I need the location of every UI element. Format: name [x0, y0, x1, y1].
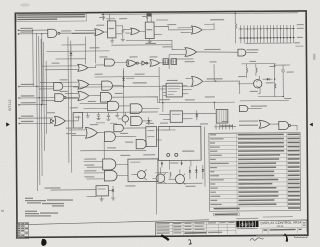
resistor R40 vertical [246, 64, 247, 78]
wire x104 drop [103, 142, 105, 159]
label C67 [287, 72, 294, 73]
resistor R21 pullup [103, 16, 148, 20]
wire rail drops [103, 13, 235, 24]
input port BS1 D02 [18, 102, 46, 106]
diode D16 vertical [202, 165, 205, 179]
and-gate E21 top row [104, 59, 114, 66]
one-shot box E43 [146, 127, 157, 147]
parts table bottom row instrument technician [214, 207, 300, 209]
label right margin small [313, 54, 316, 60]
wire E18 output [65, 116, 78, 121]
label above FF1 [106, 18, 115, 19]
inverter bubble E51 [289, 124, 291, 126]
xor-gate E22 top row [126, 60, 136, 67]
wire crossband c [55, 58, 85, 60]
diode D14 vertical [189, 166, 192, 179]
and-gate E51 [279, 121, 289, 129]
diode D12 under P1 [161, 163, 164, 165]
or-gate E18 [54, 116, 65, 126]
wire vertical pair A [67, 37, 70, 163]
wire E35 output [248, 108, 262, 110]
label above op-amp [167, 80, 178, 81]
comb small above table [214, 124, 236, 130]
wire FF2 output to E8 [154, 26, 192, 34]
wire emitter down [258, 77, 284, 96]
label in P1 top [162, 129, 176, 130]
wire E21 output [115, 61, 128, 63]
node A1 branches [32, 30, 42, 35]
and-gate E42 upper [114, 124, 124, 131]
wire E41 output [115, 135, 136, 137]
buffer E35 oval [239, 106, 248, 112]
contact block K1 [163, 59, 169, 65]
wire left vertical bus line 1 [36, 33, 37, 191]
scattered signal labels [46, 17, 276, 188]
small circle in P1 b [175, 153, 178, 156]
wire E45 output [116, 163, 128, 165]
wire long y86.5 [78, 85, 192, 87]
flip-flop E3 [145, 22, 154, 39]
wire vertical x275 analog [274, 65, 276, 97]
bottom-center handwriting mark [188, 240, 192, 244]
label row under cluster 2 [110, 123, 117, 124]
delay-line box DL1 [216, 109, 228, 123]
label +5V left [99, 17, 105, 18]
wire E9 input run [126, 40, 172, 50]
wire E42 output [123, 127, 145, 129]
label x reg [133, 82, 147, 83]
wire E44 output [145, 143, 147, 145]
label delay under DL1 [220, 125, 233, 126]
label gnd analog [284, 98, 291, 99]
one-shot box E34 [170, 111, 182, 122]
diode D13 under P1 [180, 163, 183, 165]
DAC ladder junction dots [240, 28, 294, 39]
input port BS1 D01 [18, 95, 54, 99]
box E19 region [73, 113, 83, 129]
wire long y102.7 [158, 101, 235, 104]
DAC ladder vertical rungs [241, 25, 294, 43]
input port IOT 2 [19, 121, 54, 125]
capacitor Cb [106, 112, 110, 120]
wire left vertical bus line 5 [45, 61, 48, 134]
wire E16 output [66, 96, 78, 98]
wire inputs of E1b [123, 30, 131, 33]
transistor Q9 [152, 167, 165, 183]
title block signatures column [155, 221, 235, 235]
label gnd right margin [295, 46, 303, 47]
top-left smudge [20, 3, 30, 6]
or-gate E1a [95, 29, 104, 36]
wire E31 output [142, 120, 152, 122]
wire E24 output to right [160, 62, 168, 64]
transistor Q2 [238, 76, 262, 94]
wire left vertical bus line 3 [41, 39, 42, 176]
label +bal [238, 76, 246, 77]
title text display control vr14 [260, 220, 301, 228]
wire E34 to DL1 [183, 114, 217, 119]
wire y97.5 analog [258, 96, 284, 98]
label line sync [204, 49, 220, 50]
wire E40 inputs [69, 130, 86, 136]
node rail junctions [102, 12, 235, 16]
right margin arrow mark [309, 123, 312, 127]
capacitor Ca [96, 112, 100, 119]
resistor R42 on x275 [275, 84, 276, 89]
label under E9 [175, 58, 193, 59]
label chart header above title [263, 216, 293, 217]
contact block K2 [171, 59, 177, 65]
label FF2 [146, 29, 152, 30]
wire E46 output [117, 175, 128, 177]
label +5V clamp [210, 19, 224, 20]
wire +15 top rail analog [242, 63, 276, 65]
label last x/y [204, 24, 214, 25]
inverter bubble E22 [136, 62, 138, 64]
ground below FF2 [148, 39, 152, 44]
or-gate E1b [131, 28, 140, 34]
label -15V ladder right [294, 42, 300, 43]
wire E9 output [197, 51, 238, 54]
diode D15 vertical [195, 166, 198, 179]
wire E1a to E2 [104, 31, 108, 33]
and-gate E46 [104, 171, 117, 181]
diode D10 on wire [263, 78, 273, 81]
wire E20 inputs [42, 66, 78, 70]
diode D7 vertical [122, 70, 125, 86]
node junction y86.5 [123, 86, 124, 87]
title block middle grid [184, 221, 236, 235]
wire E9 lower input run [168, 55, 170, 69]
label +5 -15 in P1 [182, 151, 194, 152]
wire E26 output [113, 84, 124, 86]
drawing number under block [256, 235, 283, 236]
label +5 above comb [222, 121, 228, 122]
wire E43 outputs right [157, 127, 170, 140]
input port BMB09 [18, 28, 48, 32]
and-gate E41 [104, 132, 115, 142]
wire y101.5 long analog [240, 99, 289, 101]
bottom right scale ticks [295, 235, 308, 238]
or-gate E9 [185, 48, 197, 57]
transistor Q10 [168, 170, 185, 185]
flip-flop E2 [107, 21, 116, 38]
transistor Q7 small [118, 112, 129, 125]
label D-ERS under FF2 [145, 43, 156, 44]
wire under FF row [111, 44, 171, 46]
label gnd trig [246, 49, 258, 50]
label +15 analog [250, 61, 257, 62]
wire y183 lower link [156, 182, 202, 184]
label in K3 [98, 188, 106, 189]
wire E25 inputs [40, 82, 78, 87]
wire E50 to E51 [270, 123, 279, 125]
small circle in P1 [167, 153, 170, 156]
note text block top-left [16, 13, 86, 22]
wire E16 second input [42, 99, 55, 101]
parts table frame [209, 133, 301, 212]
wire E29 output [119, 105, 130, 107]
and-gate E26 [102, 81, 113, 90]
label ladder mid row [297, 37, 303, 38]
and-gate E16 [55, 94, 64, 102]
wire E10 output [246, 51, 257, 53]
wire E1b to E3 [140, 30, 146, 32]
title block outline [155, 220, 307, 235]
label row under cluster [96, 122, 105, 123]
wire vertical x214.5 [213, 64, 215, 81]
wire long y76.5 [95, 76, 160, 79]
revision table bottom-left [16, 223, 29, 239]
wire E20 output [88, 65, 105, 68]
wire E25 to E26 [89, 83, 102, 85]
label x mon [251, 105, 267, 106]
wire top rail [101, 13, 298, 15]
or-gate E20 top-left [78, 64, 88, 71]
or-gate E33 big [192, 76, 203, 86]
inverter bubble E16 out [64, 97, 66, 99]
wire op-amp pins left [159, 85, 166, 95]
wire FF1 drop [85, 33, 95, 64]
diode D9 vertical [196, 110, 199, 120]
transistor Q8 inside P2 [131, 170, 147, 181]
wire E8 inputs [178, 28, 192, 33]
and-gate E44 [136, 139, 146, 148]
title block [155, 212, 307, 236]
wire inputs of E1a from bus [72, 30, 95, 33]
or-gate E8 [192, 26, 203, 34]
diode D11 [112, 186, 115, 196]
wire E28 output long [112, 97, 158, 103]
wire E8 output [202, 23, 214, 30]
diode D8 [147, 117, 150, 125]
wire E27 to E28 [89, 95, 101, 97]
label (+5V) ladder right [297, 28, 304, 29]
wire x156 drop [155, 182, 157, 215]
wire y196 link [87, 191, 114, 197]
or-gate E50 [259, 120, 270, 128]
ground under D11 [111, 195, 115, 200]
wire E46 inputs [84, 173, 105, 179]
label +15V mid [210, 61, 217, 62]
title block next assy header [213, 213, 239, 216]
wire E33 inputs [186, 79, 192, 84]
input port IOT 1 [19, 115, 53, 119]
wire E27 inputs [65, 93, 78, 98]
or-gate E24 [150, 60, 159, 67]
or-gate E27 [78, 91, 89, 100]
label x sum [207, 78, 223, 79]
and-gate E29 [108, 101, 119, 110]
wire E15 second input [39, 88, 54, 90]
bottom-right ink crescent [284, 234, 288, 242]
resistor R44 vertical [170, 172, 171, 179]
wire drops under P1 [162, 160, 191, 169]
wire vertical x159.5 [158, 67, 160, 103]
amp box P2 [128, 159, 158, 182]
wire crossband b [46, 50, 109, 52]
wire E29 inputs [80, 103, 108, 108]
bottom-center ink stroke [160, 234, 169, 241]
parts table description column [238, 134, 285, 206]
diode D2 on drop [69, 45, 72, 67]
label in P2 [130, 162, 140, 163]
wire y173 link [155, 172, 168, 174]
signature squiggle [250, 238, 264, 241]
label inside E34 [172, 114, 181, 115]
node analog junctions [274, 64, 284, 97]
wire crossband a [61, 44, 85, 46]
ground under K3 [100, 196, 104, 201]
wire E30 output [142, 108, 159, 110]
wire into E34 left [159, 114, 170, 119]
parts table left column labels [210, 134, 229, 205]
label +5V right [142, 16, 148, 17]
power box P1 [158, 126, 201, 160]
wire E45 inputs [84, 161, 103, 167]
capacitor C67 [281, 65, 285, 77]
inverter E23 [142, 61, 148, 65]
wire A1 output to E1a [60, 32, 95, 34]
wire vertical pair B [71, 41, 72, 173]
wire E51 output [291, 125, 297, 130]
label above FF2 [156, 19, 168, 20]
and-gate E30 [130, 104, 142, 114]
wire left vertical bus line 2 [39, 36, 40, 185]
label inside E43 b [147, 136, 154, 137]
or-gate E40 [86, 127, 98, 138]
label FF1 [109, 28, 115, 29]
and-gate E31 [131, 116, 142, 125]
wire E33 output right [203, 81, 240, 94]
resistor R41 vertical [256, 64, 257, 76]
left margin small smudge [1, 210, 4, 212]
label sig b above table [239, 125, 258, 126]
notes text block [25, 198, 73, 217]
wire vertical x163 [162, 87, 164, 112]
wire long y112 [78, 111, 158, 114]
wire blue/white long [51, 189, 97, 191]
label sig a above table [239, 120, 258, 121]
digital logo [236, 218, 258, 229]
label inside E19 [74, 117, 80, 118]
bottom-left ink blob [41, 239, 46, 246]
and-gate E45 [103, 159, 116, 170]
and-gate E10 [238, 49, 246, 56]
node y102.7 junctions [162, 102, 215, 104]
left margin arrow mark [6, 122, 10, 126]
wire analog top link [275, 64, 290, 66]
resistor R30 [235, 23, 237, 43]
wire E22 to E23 [138, 62, 141, 64]
label inside E43 [147, 130, 154, 131]
ground below FF1 [110, 38, 114, 43]
ground below C12 [121, 38, 125, 42]
op-amp A702 box [166, 83, 182, 97]
wire x204.5 drop [204, 127, 206, 187]
parts table part-number column [287, 134, 300, 205]
label blue/white [45, 187, 61, 188]
and-gate E28 [100, 92, 111, 102]
wire y150 long [80, 149, 146, 152]
relay box K3 [96, 186, 108, 196]
wire x214.5 lower [213, 102, 215, 109]
wire E15 output [63, 85, 78, 87]
ground sym b [115, 112, 119, 118]
nand-gate A1 [48, 29, 60, 37]
input port BMB10 [18, 31, 48, 35]
and-gate E15 [54, 82, 63, 90]
capacitor C12 between stages [122, 26, 125, 38]
wire vertical x123.9 long [122, 68, 124, 116]
inverter E17 [51, 119, 54, 123]
title number row [259, 220, 307, 234]
wire E23 to E24 [148, 62, 150, 64]
paper noise overlay [0, 0, 1, 1]
DAC ladder horizontal buses [239, 29, 295, 44]
wire E40 to E41 [97, 132, 104, 134]
wire op-amp pins right [182, 86, 191, 94]
wire FF1 output [116, 26, 123, 34]
wire E9 inputs [169, 50, 185, 55]
label near D7 [126, 78, 134, 79]
input port BS1 D00 [18, 84, 53, 88]
node x216 [215, 80, 216, 81]
wire left vertical bus line 4 [43, 42, 46, 151]
label +5V ladder right [297, 24, 304, 25]
title strip top line [16, 220, 209, 225]
or-gate E25 [78, 80, 89, 89]
wire A1 branch verticals [33, 30, 43, 105]
ground sym a [86, 112, 90, 118]
